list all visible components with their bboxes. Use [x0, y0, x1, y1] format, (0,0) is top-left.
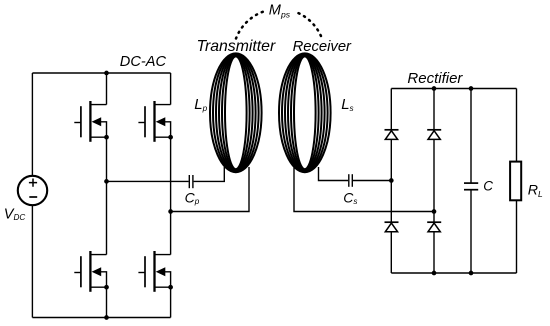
- capacitor C filter: [464, 89, 478, 274]
- inductor Ls receiver coil: [279, 53, 331, 172]
- diode D1: [385, 130, 399, 140]
- diode D3: [385, 222, 399, 232]
- wire receiver coil lower to rectifier: [294, 167, 434, 212]
- transistor Q1 top-left MOSFET: [74, 101, 109, 142]
- node Cs rectifier junction: [389, 178, 394, 183]
- capacitor Cs: [349, 174, 353, 187]
- transistor Q3 bottom-left MOSFET: [74, 251, 109, 292]
- transistor Q2 top-right MOSFET: [138, 101, 173, 142]
- wire left midpoint to Cp: [107, 180, 189, 182]
- wire right bridge column top: [170, 73, 172, 105]
- wire rectifier top rail: [391, 88, 516, 90]
- wire top rail DC link: [32, 72, 170, 74]
- node bottom rail junction: [104, 315, 109, 320]
- wire left bridge column mid: [106, 137, 108, 254]
- wire rectifier right column: [433, 89, 435, 274]
- svg-text:Transmitter: Transmitter: [197, 38, 276, 55]
- node left midpoint junction: [104, 179, 109, 184]
- mutual inductance dotted arc: [236, 9, 322, 39]
- wire Cs to rectifier: [353, 180, 391, 182]
- wire left bridge column bottom: [106, 287, 108, 317]
- wire rectifier bottom rail: [391, 272, 516, 274]
- resistor RL: [510, 89, 521, 274]
- capacitor Cp: [189, 175, 193, 188]
- node top rail junction: [104, 71, 109, 76]
- svg-text:Receiver: Receiver: [293, 39, 352, 55]
- wire bottom rail DC link: [32, 317, 170, 319]
- node rectifier bottom rail junction 1: [432, 271, 437, 276]
- wire rectifier left column: [390, 89, 392, 274]
- node rectifier bottom rail junction 2: [469, 271, 474, 276]
- diode D4: [427, 222, 441, 232]
- wire left bridge column top: [106, 73, 108, 105]
- wire right midpoint to transmitter coil: [171, 167, 249, 212]
- node rectifier top rail junction 2: [469, 86, 474, 91]
- wire receiver coil to Cs: [319, 167, 349, 181]
- node rectifier top rail junction 1: [432, 86, 437, 91]
- transistor Q4 bottom-right MOSFET: [138, 251, 173, 292]
- wire right bridge column bottom: [170, 287, 172, 317]
- node lower rectifier junction: [432, 209, 437, 214]
- svg-text:C: C: [483, 178, 493, 193]
- source VDC: [18, 176, 47, 205]
- diode D2: [427, 130, 441, 140]
- wire left vertical lower: [31, 205, 33, 318]
- wire right bridge column mid: [170, 137, 172, 254]
- inductor Lp transmitter coil: [210, 53, 262, 172]
- node right midpoint junction: [168, 209, 173, 214]
- wire left vertical upper: [31, 73, 33, 176]
- svg-text:Rectifier: Rectifier: [407, 70, 463, 87]
- wire Cp to transmitter coil: [194, 167, 225, 181]
- svg-text:DC-AC: DC-AC: [120, 54, 167, 70]
